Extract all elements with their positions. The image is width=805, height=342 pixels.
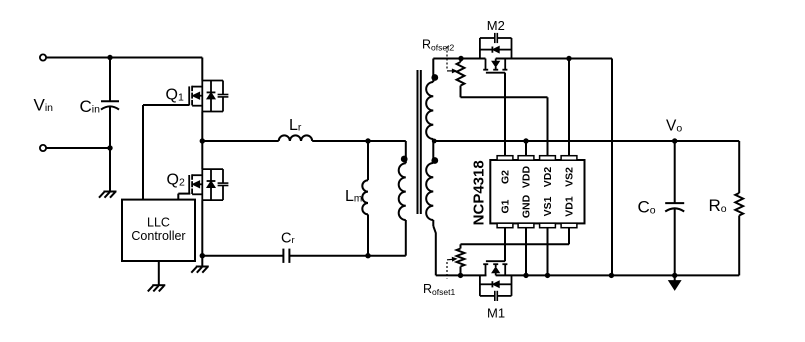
svg-text:VS2: VS2 xyxy=(564,167,576,187)
svg-text:M2: M2 xyxy=(487,18,505,33)
svg-text:VDD: VDD xyxy=(521,165,533,188)
svg-text:M1: M1 xyxy=(487,305,505,320)
svg-text:NCP4318: NCP4318 xyxy=(470,160,487,225)
svg-text:VD2: VD2 xyxy=(542,167,554,188)
svg-text:G1: G1 xyxy=(500,199,512,213)
svg-text:GND: GND xyxy=(521,194,533,218)
svg-text:VS1: VS1 xyxy=(542,196,554,216)
svg-text:G2: G2 xyxy=(500,170,512,184)
svg-text:LLC: LLC xyxy=(147,216,170,230)
svg-text:VD1: VD1 xyxy=(564,196,576,217)
svg-text:Controller: Controller xyxy=(131,229,185,243)
